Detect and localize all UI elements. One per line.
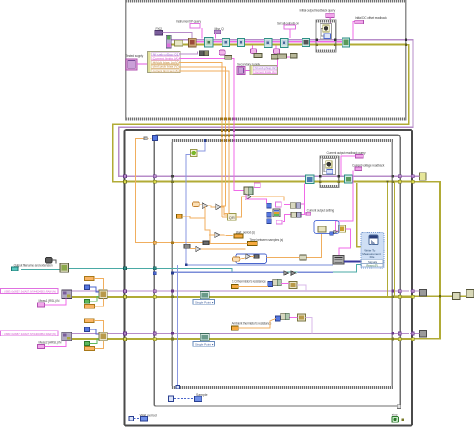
feedback node arrow (334, 230, 338, 234)
voltage readback local variable (355, 167, 362, 171)
pink center network (246, 183, 304, 221)
convert pair r2 (281, 313, 286, 319)
open/create file vi (60, 263, 69, 272)
wire triangle4 to start_period (220, 234, 234, 237)
wire pair to vi r1 (281, 282, 289, 284)
wire vi r1 right (297, 285, 306, 291)
while loop right tunnels (411, 175, 414, 178)
svg-text::: USB3::0x0957::0x0A07::MY440: :: USB3::0x0957::0x0A07::MY44004563::RAW… (2, 290, 56, 294)
VISA wire from constant (162, 33, 192, 38)
wire triangle1 to triangle2 (208, 206, 216, 207)
error bus wire in top frame (171, 44, 406, 46)
gauge icon pair 2 (271, 54, 278, 59)
property node box (320, 24, 331, 39)
VISA stub to close vi (413, 175, 420, 177)
flat sequence (inner) top hatched border (171, 139, 393, 142)
wire left terminal to mesh (182, 206, 205, 218)
wire row down to triangle5 (190, 247, 196, 249)
cluster row 5 (151, 69, 179, 72)
blue wire to merge (186, 264, 333, 266)
small flat sequence in top frame (316, 20, 336, 52)
wire triangle6 box2 (251, 255, 254, 257)
VISA wire wrap: top frame right exit, around to loop left (119, 40, 413, 177)
thermistor terminal r1 (232, 284, 239, 288)
pink stub to setting var (304, 213, 306, 215)
triangle 6 (246, 254, 251, 259)
error wire meas1 exit (413, 295, 440, 297)
VISA wire across loop y=176 (124, 175, 413, 177)
merge errors vi (466, 290, 474, 298)
wire terminal to I32 r1 (238, 285, 268, 287)
blue feedback rect (236, 254, 266, 264)
init vi icon (tan) (189, 38, 197, 47)
pink wire down from voltage readback (335, 171, 353, 231)
boolean true constant (284, 25, 295, 29)
VISA write vi (left of sequence) (306, 175, 314, 184)
flat sequence (inner) left border (171, 139, 173, 389)
svg-text:QR: QR (229, 215, 235, 220)
readback query local variable (356, 154, 364, 158)
small flat sequence (in loop) (320, 156, 339, 187)
time between samples terminal (248, 242, 258, 246)
for loop right tunnels (398, 175, 401, 178)
close file vi (Cb) (46, 258, 53, 264)
flat sequence (inner) bottom hatched border (171, 386, 393, 389)
const green r1 (84, 299, 89, 303)
small vi below gauge (225, 55, 232, 59)
svg-text:Single Point ▾: Single Point ▾ (195, 300, 214, 304)
meas1 string constant (1, 289, 59, 294)
feedback node glyph (318, 226, 326, 232)
simple error handler vi (453, 293, 461, 300)
wire from feedback query down (329, 18, 331, 40)
const 1 Gig r1 (84, 304, 94, 308)
feedback query local variable (326, 13, 334, 17)
dashes i to sample (174, 398, 194, 400)
config vi r1 (99, 290, 107, 299)
svg-text:Tested supply: Tested supply (126, 54, 144, 58)
meas1 terminal (38, 303, 45, 307)
blue I32 r1 (268, 282, 273, 287)
error wire meas2 exit going up to junction (413, 296, 440, 338)
dashes wait to ms box (134, 417, 141, 419)
meas1 VISA stub (410, 290, 420, 292)
scale icon pair 2a (291, 212, 296, 217)
error wire right side: loop exit to icons (413, 182, 453, 297)
scale icon pair 1b (296, 203, 300, 209)
const 1 Gig r2 (84, 347, 94, 351)
small constant left of N (144, 137, 147, 140)
const green r2 (84, 342, 89, 346)
error branch 2 (395, 182, 412, 296)
meas2 open vi (62, 332, 72, 341)
wire orange const2 to triangle6 (240, 258, 246, 259)
wires consts to config vi r1 (94, 278, 103, 306)
wire meas2 terminal to vi (45, 341, 67, 347)
supply cluster constant frame (148, 52, 181, 73)
unbundle icon 1 (199, 51, 204, 56)
convert pair r1 (273, 279, 278, 285)
wire triangle5 right long (201, 248, 246, 250)
wire pair to vi r2 (289, 316, 297, 318)
for loop bottom-right tunnel (397, 405, 401, 409)
VISA close vi after loop (top) (420, 173, 427, 181)
orange terminal left small (177, 214, 182, 218)
elapsed time vi (190, 150, 197, 157)
pink feed wire (234, 63, 244, 190)
svg-text:Output filename and extension: Output filename and extension (14, 263, 53, 267)
error in constant (175, 40, 183, 46)
while loop left tunnels (123, 175, 126, 178)
flat sequence (top) left border (125, 0, 126, 120)
wire query to sequence (341, 156, 355, 175)
svg-text:Initial output feedback query: Initial output feedback query (300, 9, 336, 13)
unbundle icon 1b (204, 51, 208, 56)
meas1 error wire row y=297 (72, 296, 413, 298)
error wire from read vi down to express vi (357, 183, 361, 246)
thermistor terminal r2 (232, 326, 239, 330)
Msr Q local variable (214, 30, 221, 33)
value numeric box (324, 34, 331, 39)
blue I32 r2 (276, 316, 281, 321)
wire vi r2 right (305, 317, 312, 333)
orange const 2 (233, 257, 240, 261)
orange row4 wire (179, 67, 225, 70)
single point vi r1 (200, 292, 209, 299)
blue numeric wire row (172, 271, 284, 273)
svg-text:current limit set (A): current limit set (A) (153, 69, 179, 73)
file path wire (teal) (21, 265, 361, 272)
meas2 VISA wire row y=333.5 (72, 333, 410, 335)
pink box below bus 2 (274, 49, 280, 54)
wire triangle2 to QR (221, 207, 228, 215)
wait ms vi (140, 416, 147, 421)
wire after feedback to icon pair (266, 257, 299, 259)
wire true const down to vi (289, 29, 291, 38)
triangle 5 (196, 246, 201, 251)
multiply triangle 1 (202, 203, 207, 209)
blue small consts column 1 (267, 203, 272, 208)
orange const mesh box (193, 202, 200, 206)
loop condition terminal (392, 417, 399, 423)
meas2 close vi (420, 330, 427, 337)
flat sequence (top) top hatched border (125, 0, 406, 3)
error wire between right icons (460, 295, 466, 297)
wire meas1 terminal to vi (45, 299, 67, 305)
wire crossing dots on for loop border (221, 139, 223, 141)
tunnels on loop sequence (319, 175, 321, 177)
blue small consts column 2 (267, 212, 272, 217)
Write To Measurement File express VI (361, 233, 384, 269)
meas1 VISA wire row y=291 (72, 290, 410, 292)
quotient remainder icon (228, 213, 236, 220)
vi icon 5 (264, 38, 272, 47)
pink box E2 (276, 220, 282, 224)
svg-text:Current output setting: Current output setting (307, 208, 335, 212)
dashes const to N (148, 137, 153, 139)
const blue r2 (84, 327, 89, 331)
config vi r2 (99, 332, 107, 341)
sequence left tunnels (dark) (171, 175, 174, 178)
for loop left tunnels (153, 175, 156, 178)
for loop frame (154, 135, 400, 406)
error wire across loop y=181.5 (124, 181, 413, 183)
svg-text:Instrument IP query: Instrument IP query (176, 20, 201, 24)
pink box E1 (276, 202, 282, 207)
small icon pair right of feedback (300, 255, 307, 260)
single point label box r2 (193, 342, 215, 347)
svg-text:Current limits (A): Current limits (A) (255, 70, 276, 74)
sample indicator (194, 396, 201, 401)
type cast / open instr tall icon (166, 35, 171, 48)
single point label box r1 (193, 300, 215, 305)
svg-text:Meas1 (RSL) IN: Meas1 (RSL) IN (39, 299, 61, 303)
tall skinny convert pair 1 (244, 187, 249, 195)
svg-text:Reset (F): Reset (F) (366, 263, 378, 267)
feedback node frame (314, 221, 339, 234)
wire mesh down-right to time terminal (205, 218, 248, 244)
pink stub 1 (252, 46, 254, 49)
wire cluster2 up to icons (271, 57, 277, 67)
wires consts to config vi r2 (94, 321, 103, 349)
orange feed wire 3 (228, 74, 230, 214)
meas2 error wire row y=339 (72, 338, 413, 340)
scale vi r1 (289, 282, 297, 289)
comparison triangles row1 (284, 271, 289, 276)
while loop frame (124, 130, 412, 426)
small vi below 2 (277, 54, 286, 58)
wire terminal to right r2 (238, 318, 275, 328)
sequence right tunnels (391, 175, 394, 178)
multiply triangle 2 (216, 204, 221, 210)
orange wire from N area down left side and into for loop (136, 139, 203, 243)
orange row5 wire (179, 71, 229, 74)
pink wire icons to left (284, 204, 290, 206)
instrument IP string constant (190, 24, 200, 28)
tall skinny convert pair 2 (249, 187, 253, 195)
svg-text:Ambient thermistor's resistanc: Ambient thermistor's resistance (232, 321, 272, 325)
wire Cb down to open vi (53, 260, 56, 263)
pink wire fx right down to merge (339, 229, 350, 255)
pink wire convert pair down (246, 195, 266, 204)
feedback blue const (330, 232, 334, 236)
dark box 2 (254, 255, 259, 259)
svg-text::: USB3::0x0957::0x0A07::MY440: :: USB3::0x0957::0x0A07::MY44004564::RAW… (2, 332, 56, 336)
cluster row 1 (151, 53, 179, 56)
orange row3 wire (179, 63, 221, 66)
arrow enum2 to cluster2 (245, 69, 250, 71)
vi icon 7 (302, 38, 309, 46)
wire from IP constant down (201, 28, 203, 39)
iteration terminal i (168, 396, 173, 401)
wait period constant (129, 416, 134, 420)
blue wire merge to express vi (344, 260, 361, 262)
top frame bottom border tunnels for feed wires (221, 118, 224, 121)
DC offset readback local variable (355, 20, 364, 24)
multicolor cluster icon (273, 209, 280, 217)
merge signals icon (333, 255, 344, 264)
current output setting local var (306, 212, 311, 215)
error wire wrap: top frame right exit, around to loop left (113, 45, 409, 182)
blue small consts column 3 (267, 219, 272, 224)
pink wire from write vi down (300, 183, 304, 214)
for loop N terminal (153, 136, 158, 141)
cluster output wires: violet row1 (179, 52, 197, 54)
blue tunnel bottom of sequence (176, 385, 179, 388)
wire from Msr Q down (215, 34, 217, 39)
scale icon pair 2b (297, 212, 301, 217)
meas2 VISA stub (410, 333, 420, 335)
svg-text:Single Point ▾: Single Point ▾ (195, 342, 214, 346)
svg-text:stop: stop (392, 413, 398, 417)
const 0.43 (84, 277, 94, 281)
gray vi box row (184, 244, 190, 248)
pink wire pair2 to box2 (283, 215, 291, 222)
pink wire vertical to pair1 (297, 203, 305, 205)
VISA bus wire in top frame (171, 39, 406, 41)
VISA read vi (right of sequence) (345, 175, 353, 183)
error branch down from read vi (386, 182, 388, 297)
start_period terminal (234, 234, 243, 238)
vi icon 6 (280, 38, 288, 47)
cluster row 4 (151, 65, 179, 68)
meas2 string constant (1, 331, 59, 336)
flat sequence (top) right border (405, 0, 406, 120)
stop wire stub (402, 419, 405, 421)
pink row2 wire (179, 58, 234, 63)
blue wire from tunnel to elapsed vi (197, 142, 205, 151)
filename string control (12, 267, 19, 271)
vi icon 4 (237, 38, 244, 46)
wire triangle3 output right (251, 197, 284, 201)
dark box mesh (203, 241, 209, 245)
junction dots (405, 39, 407, 41)
scaling vi (fx) (339, 225, 346, 232)
const blue r1 (84, 285, 89, 289)
tested supply enum constant (126, 59, 137, 70)
wire const to triangle1 (199, 203, 202, 205)
bus tunnels on small sequence (315, 39, 317, 41)
pink stub 2 (275, 46, 277, 49)
orange feed3 to mesh (224, 213, 229, 215)
svg-text:Initial DC offset readback: Initial DC offset readback (355, 16, 387, 20)
record glyph (323, 25, 329, 32)
pink array box above (254, 183, 260, 187)
triangle 4 (215, 232, 220, 237)
arrow wire enum to cluster (137, 63, 148, 65)
svg-text:File: File (370, 255, 375, 259)
meas2 terminal (38, 344, 45, 348)
vi icon 8 (342, 38, 349, 47)
pink box below bus 1 (250, 49, 256, 54)
vi icon 2 (205, 38, 213, 47)
meas1 open vi (62, 290, 72, 299)
comparison triangle 3 (246, 194, 251, 199)
blue wire from elapsed vi down (186, 154, 190, 264)
blue tunnel on inner sequence top (204, 139, 206, 142)
svg-text:1 Ω thermistor's resistance: 1 Ω thermistor's resistance (232, 280, 266, 284)
wire icon pair up right (306, 234, 321, 258)
vi icon 3 (222, 38, 229, 46)
flat sequence (inner) right border (392, 139, 394, 389)
scale vi r2 (297, 314, 305, 321)
wire QR up to triangle3 (236, 197, 246, 217)
wire to triangle4 (209, 234, 215, 236)
orange mesh wires (182, 197, 322, 259)
scale icon pair 1a (290, 203, 295, 209)
VISA resource name constant (155, 31, 163, 35)
const 1.042 (84, 319, 94, 323)
cluster row 3 (151, 61, 179, 64)
orange feed wire 1 down into structures (221, 66, 223, 217)
secondary supply enum constant (237, 66, 245, 74)
blue branch down to bottom tunnel (177, 265, 179, 386)
flat sequence (top) bottom hatched border (125, 118, 406, 121)
single point vi r2 (200, 333, 209, 340)
secondary cluster constant (250, 65, 277, 74)
gauge icon pink rounded (219, 50, 225, 55)
wire from DC offset readback to bus (353, 22, 355, 39)
meas1 close vi (420, 290, 427, 297)
orange feed wire 2 (221, 70, 225, 206)
string bus wire segments (bright pink) (196, 41, 343, 43)
wire orange feed1 to QR low input (222, 216, 228, 218)
small vi below 1 (254, 53, 262, 57)
gauge icon pair 3 (290, 53, 297, 58)
cluster row 2 (151, 57, 179, 60)
